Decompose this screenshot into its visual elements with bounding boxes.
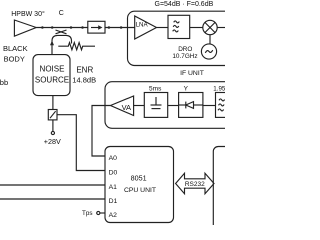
wire D1 [0, 198, 105, 200]
svg-text:1.95: 1.95 [213, 86, 225, 93]
svg-text:Tps: Tps [82, 210, 93, 217]
svg-text:DRO: DRO [178, 46, 192, 53]
svg-text:RS232: RS232 [185, 181, 205, 188]
wire antenna to isolator [36, 27, 88, 29]
wire mixer output [217, 27, 225, 29]
wire switch to D0 [57, 115, 105, 171]
wire switch to supply terminal [52, 120, 54, 131]
IF filter box [216, 93, 240, 118]
svg-text:CPU UNIT: CPU UNIT [124, 187, 156, 194]
ENR value label [72, 66, 96, 85]
IF unit box [105, 82, 240, 129]
node dot 4 [81, 26, 84, 29]
svg-text:10.7GHz: 10.7GHz [172, 53, 197, 60]
coupler arch [52, 35, 72, 43]
wire integrator to detector [168, 105, 179, 107]
svg-text:BLACK: BLACK [3, 44, 28, 53]
wire LNA to filter [157, 27, 169, 29]
node dot 3 [70, 26, 73, 29]
svg-text:8051: 8051 [131, 174, 147, 183]
svg-text:A2: A2 [109, 212, 118, 219]
wire mixer to DRO [209, 35, 211, 44]
node Tbb label [0, 78, 8, 87]
svg-text:BODY: BODY [4, 54, 25, 63]
svg-text:C: C [59, 10, 64, 17]
svg-text:VA: VA [122, 103, 131, 112]
node dot 1 [41, 26, 44, 29]
supply terminal [51, 131, 54, 134]
RS232 link arrow [176, 173, 214, 193]
antenna label HPBW 30 [11, 10, 45, 18]
black body label [3, 44, 28, 63]
noise injection arrow [50, 41, 54, 56]
svg-text:IF UNIT: IF UNIT [180, 70, 204, 77]
wire A1 [0, 184, 105, 186]
svg-text:A0: A0 [109, 155, 118, 162]
svg-text:NOISE: NOISE [40, 64, 65, 73]
svg-text:14.8dB: 14.8dB [72, 76, 96, 85]
svg-text:A1: A1 [109, 184, 118, 191]
node dot 6 [120, 26, 123, 29]
termination resistor [58, 43, 95, 50]
svg-text:Y: Y [184, 85, 189, 92]
PC box [213, 147, 273, 232]
local oscillator DRO [201, 44, 216, 59]
wire noise source to switch [52, 96, 54, 110]
mixer M1 [203, 20, 217, 34]
sensor label Tps [82, 210, 93, 217]
wire VA output to A0 [92, 106, 111, 157]
modulation switch S1 [48, 110, 57, 120]
directional coupler cross [56, 30, 67, 34]
svg-text:5ms: 5ms [149, 85, 162, 92]
svg-text:D1: D1 [109, 198, 118, 205]
supply label +28V [44, 137, 61, 146]
integrator label 5ms [149, 85, 162, 92]
wire VA to integrator [134, 105, 145, 107]
svg-text:LNA: LNA [136, 21, 149, 28]
noise source box NS [33, 55, 70, 96]
RF unit gain label [155, 1, 214, 8]
RF unit box [128, 11, 240, 65]
wire Tps to A2 [100, 212, 105, 214]
wire filter to mixer [190, 27, 203, 29]
horn antenna ANT [14, 20, 36, 36]
detector box D1 [179, 93, 203, 118]
sensor terminal [97, 211, 100, 214]
node dot 5 [108, 26, 111, 29]
bandpass filter FL1 [168, 15, 190, 38]
node C label [59, 10, 64, 17]
svg-text:+28V: +28V [44, 137, 61, 146]
video amplifier VA [111, 96, 134, 116]
detector label Y [184, 85, 189, 92]
svg-text:SOURCE: SOURCE [35, 76, 69, 85]
integrator box [144, 93, 167, 118]
IF unit label [180, 70, 204, 77]
svg-text:G=54dB · F=0.6dB: G=54dB · F=0.6dB [155, 1, 214, 8]
LNA amplifier [135, 16, 157, 39]
svg-text:HPBW 30°: HPBW 30° [11, 10, 45, 18]
svg-text:D0: D0 [109, 170, 118, 177]
wire detector to IF filter [203, 105, 216, 107]
svg-text:ENR: ENR [76, 66, 93, 75]
IF filter label 1.95 [213, 86, 226, 93]
isolator [88, 21, 105, 33]
CPU box 8051 [105, 147, 174, 223]
wire isolator to RF unit [105, 27, 135, 29]
svg-text:Tbb: Tbb [0, 78, 8, 87]
node dot 2 [51, 26, 54, 29]
